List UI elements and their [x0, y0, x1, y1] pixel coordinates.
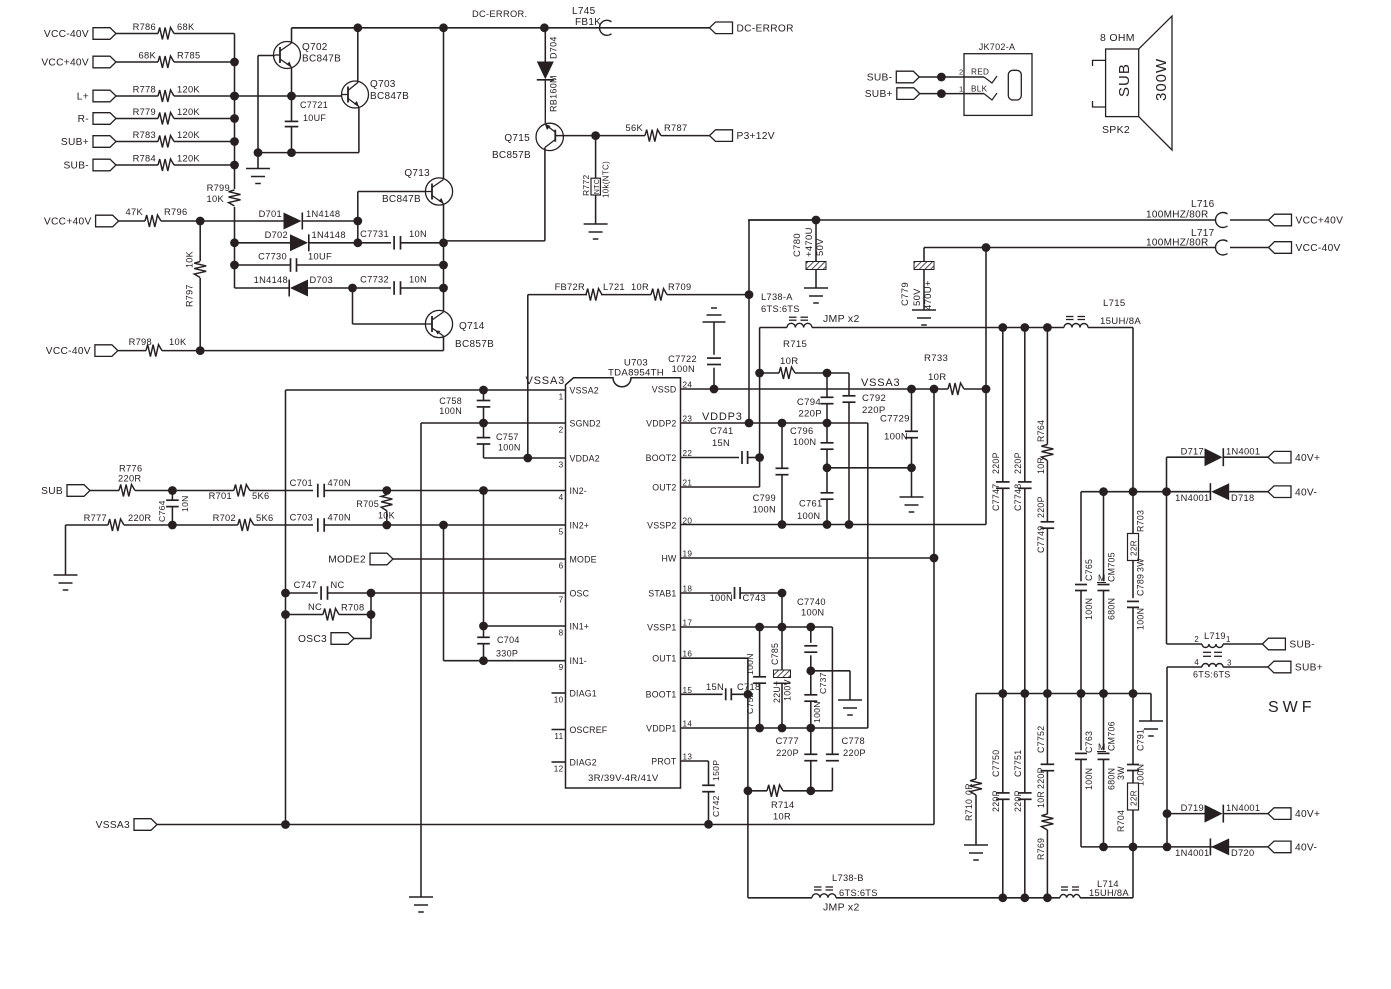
svg-text:15UH/8A: 15UH/8A: [1089, 888, 1129, 898]
ground C7729: [900, 468, 924, 512]
node IN1- tap: [479, 656, 488, 665]
svg-text:SPK2: SPK2: [1102, 124, 1130, 136]
svg-text:C701: C701: [290, 478, 313, 488]
svg-text:100N: 100N: [672, 364, 695, 374]
ferrite L717 100MHZ/80R: [1146, 228, 1228, 255]
svg-text:BC847B: BC847B: [370, 91, 409, 102]
svg-text:VSSA3: VSSA3: [96, 820, 130, 831]
svg-text:6TS:6TS: 6TS:6TS: [839, 888, 878, 898]
capacitor C779 470U 50V: [900, 248, 936, 326]
svg-text:C7732: C7732: [360, 275, 389, 285]
capacitor CM705 680N: [1097, 492, 1117, 694]
svg-text:R708: R708: [341, 603, 364, 613]
svg-text:Q703: Q703: [370, 79, 396, 90]
svg-text:VCC+40V: VCC+40V: [41, 58, 89, 69]
wire ground rail: [254, 148, 359, 157]
wire Q703 emitter: [358, 107, 360, 153]
capacitor C7722 100N: [668, 308, 725, 389]
svg-text:SUB: SUB: [1116, 63, 1133, 97]
wire L719 to SUB+: [1223, 666, 1268, 668]
svg-text:PROT: PROT: [651, 756, 677, 766]
svg-text:10R: 10R: [631, 282, 649, 292]
node R733 right: [982, 385, 991, 394]
op-amp U703 TDA8954TH body: [526, 358, 681, 789]
svg-text:RED: RED: [971, 68, 989, 77]
label VSSA3 right: [861, 377, 900, 389]
svg-text:470N: 470N: [328, 513, 351, 523]
svg-text:FB72R: FB72R: [555, 282, 585, 292]
svg-text:R733: R733: [924, 353, 948, 364]
capacitor C765 100N: [1075, 492, 1094, 694]
capacitor C791 100N: [1127, 694, 1146, 787]
wire C7730 long: [297, 264, 444, 266]
resistor R705 10K: [356, 495, 395, 525]
svg-text:10N: 10N: [409, 229, 427, 239]
svg-text:2: 2: [559, 426, 564, 435]
resistor R701 5K6: [172, 485, 313, 502]
svg-text:M: M: [1098, 742, 1106, 752]
svg-text:10K: 10K: [169, 337, 187, 347]
svg-text:15N: 15N: [712, 438, 730, 448]
wire D717 out: [1223, 456, 1268, 458]
resistor R704 22R 3W: [1116, 766, 1139, 847]
node bus D702: [230, 238, 239, 247]
wire HW pin19: [681, 557, 935, 559]
svg-text:4: 4: [1194, 658, 1199, 667]
svg-text:1N4001: 1N4001: [1175, 493, 1209, 503]
svg-text:SUB-: SUB-: [63, 161, 89, 172]
capacitor C7732 10N: [360, 275, 427, 295]
svg-text:6TS:6TS: 6TS:6TS: [761, 304, 800, 314]
svg-text:VDDP2: VDDP2: [646, 418, 676, 428]
node DC-ERROR wire junctions: [353, 23, 548, 32]
svg-text:SUB+: SUB+: [865, 89, 893, 100]
svg-text:C7740: C7740: [797, 597, 826, 607]
svg-text:L738-B: L738-B: [832, 873, 864, 883]
svg-text:OSCREF: OSCREF: [570, 725, 608, 735]
svg-text:HW: HW: [661, 553, 677, 563]
wire L714 up: [1080, 847, 1133, 898]
wire JMP row left: [760, 327, 787, 329]
wire L717 to connector: [1230, 247, 1269, 249]
svg-text:VSSP1: VSSP1: [647, 622, 676, 632]
svg-text:C7752: C7752: [1036, 726, 1046, 753]
capacitor C794 220P: [797, 373, 834, 423]
node C796 bottom: [823, 463, 832, 472]
svg-text:40V+: 40V+: [1295, 809, 1320, 820]
wire Q715 emitter to node: [555, 135, 596, 137]
svg-text:C789: C789: [1136, 574, 1146, 596]
label JMP x2 top: [823, 313, 860, 325]
node VSSP2 dots: [778, 520, 854, 529]
diode D703 1N4148: [254, 275, 333, 297]
diode D719 1N4001: [1163, 803, 1261, 823]
svg-text:R785: R785: [177, 51, 200, 61]
svg-text:D717: D717: [1181, 447, 1204, 457]
svg-text:D704: D704: [549, 36, 559, 59]
svg-text:1N4001: 1N4001: [1175, 848, 1209, 858]
svg-text:R783: R783: [133, 130, 156, 140]
wire output node A: [1081, 843, 1268, 852]
svg-text:10K: 10K: [185, 251, 195, 268]
wire D703 row: [235, 287, 290, 289]
svg-text:VSSP2: VSSP2: [647, 520, 676, 530]
svg-text:1N4001: 1N4001: [1226, 447, 1260, 457]
output P3+12V: [710, 130, 775, 142]
svg-text:10UF: 10UF: [308, 252, 332, 262]
node bus C7730: [230, 261, 239, 270]
svg-text:R796: R796: [164, 207, 187, 217]
svg-text:22R: 22R: [1130, 790, 1139, 806]
svg-text:R779: R779: [133, 107, 156, 117]
wire R715 to C792: [827, 373, 849, 396]
svg-text:100N: 100N: [439, 406, 462, 416]
svg-text:100V: 100V: [783, 679, 793, 701]
capacitor C747 NC: [294, 580, 345, 600]
connector JK702-A: [959, 42, 1032, 115]
wire JMP row right: [812, 323, 1064, 332]
wire node B to L719: [1167, 492, 1203, 644]
capacitor C7721 10UF: [285, 100, 328, 127]
wire input bus: [234, 34, 236, 289]
svg-text:10UF: 10UF: [303, 113, 326, 123]
svg-text:22R: 22R: [1130, 540, 1139, 556]
svg-text:120K: 120K: [177, 107, 200, 117]
svg-text:10: 10: [554, 696, 564, 705]
wire bottom jmp left: [748, 897, 812, 899]
svg-text:1N4148: 1N4148: [306, 209, 340, 219]
node D703/Q714 base: [348, 284, 357, 293]
svg-text:Q713: Q713: [404, 168, 430, 179]
wire VDDP1 pin14: [681, 724, 868, 733]
capacitor C780 470U 50V: [792, 220, 828, 303]
transistor Q703 BC847B: [342, 79, 410, 108]
svg-text:VCC-40V: VCC-40V: [1296, 243, 1341, 254]
svg-text:3R/39V-4R/41V: 3R/39V-4R/41V: [588, 773, 659, 784]
svg-text:BOOT1: BOOT1: [646, 690, 677, 700]
svg-text:RB160M: RB160M: [549, 75, 559, 112]
capacitor C718 15N: [706, 682, 760, 700]
node R715 left: [755, 369, 764, 378]
inductor L715 15UH/8A: [1064, 298, 1141, 328]
node base/C7731 node: [353, 238, 362, 247]
svg-text:C7731: C7731: [360, 229, 389, 239]
node C742 bottom: [704, 820, 713, 829]
capacitor C785 22U 100V: [770, 627, 793, 728]
resistor R777 220R: [84, 513, 173, 531]
wire R708 right: [339, 593, 375, 619]
svg-text:C741: C741: [710, 426, 733, 436]
input L+ with resistor R778: [77, 85, 235, 103]
wire OUT2 pin21: [681, 458, 760, 488]
svg-text:40V-: 40V-: [1295, 843, 1317, 854]
svg-text:C7729: C7729: [880, 414, 910, 425]
transistor Q714 BC857B: [425, 310, 494, 350]
wire R709 to node: [667, 294, 749, 296]
resistor R733 10R: [924, 353, 986, 395]
capacitor C7731 10N: [360, 229, 427, 250]
wire Q713 base riser: [358, 192, 426, 243]
svg-text:680N: 680N: [1107, 598, 1117, 620]
input VCC-40V with resistor R786: [44, 22, 235, 40]
wire SUB- to jack: [919, 73, 984, 82]
resistor R703 22R 3W: [1128, 492, 1146, 599]
svg-text:100N: 100N: [797, 511, 820, 521]
svg-text:22U+: 22U+: [772, 681, 782, 703]
svg-text:R704: R704: [1116, 810, 1126, 832]
wire VSSD pin24: [681, 385, 949, 394]
svg-text:OUT2: OUT2: [652, 482, 676, 492]
svg-text:C7721: C7721: [300, 100, 328, 110]
svg-text:SUB+: SUB+: [61, 137, 89, 148]
resistor FB72R L721: [555, 282, 625, 301]
svg-text:C765: C765: [1084, 559, 1094, 581]
svg-text:D703: D703: [310, 275, 333, 285]
svg-text:VDDP1: VDDP1: [646, 723, 676, 733]
svg-text:NC: NC: [308, 602, 322, 612]
node R715 right: [823, 369, 832, 378]
wire bus 693 row: [976, 689, 1151, 698]
svg-text:17: 17: [683, 619, 693, 628]
svg-text:C796: C796: [790, 426, 813, 436]
wire BOOT1 pin15: [681, 693, 723, 695]
node Q713 emitter: [439, 238, 448, 247]
ground below R772: [584, 224, 608, 239]
wire PROT pin13: [681, 761, 709, 785]
svg-text:VCC+40V: VCC+40V: [44, 217, 92, 228]
svg-text:21: 21: [683, 479, 693, 488]
svg-text:CM706: CM706: [1107, 721, 1117, 751]
svg-text:1N4148: 1N4148: [254, 275, 288, 285]
input SUB- with resistor R784: [63, 154, 234, 172]
wire VDDP2-VDDP1 vertical: [867, 423, 869, 728]
capacitor C7750 220P: [991, 694, 1010, 898]
svg-text:100N: 100N: [1136, 608, 1146, 630]
svg-text:VCC-40V: VCC-40V: [44, 29, 89, 40]
svg-text:BLK: BLK: [971, 85, 988, 94]
label DC-ERROR.: [472, 9, 527, 19]
svg-text:10N: 10N: [180, 495, 190, 512]
capacitor C752 100N: [745, 627, 766, 728]
svg-text:L719: L719: [1204, 631, 1226, 641]
svg-text:3: 3: [1227, 659, 1232, 668]
svg-text:220P: 220P: [798, 409, 822, 420]
svg-text:9: 9: [559, 663, 564, 672]
node R714 right: [806, 786, 815, 795]
svg-text:R777: R777: [84, 513, 107, 523]
node C7732 right: [439, 284, 448, 293]
node Q715 node: [591, 131, 600, 140]
svg-text:10R: 10R: [780, 356, 799, 367]
svg-text:R705: R705: [356, 499, 379, 509]
svg-text:11: 11: [554, 732, 563, 741]
wire C703 to IN2+: [324, 521, 565, 530]
wire STAB1 pin18: [681, 592, 732, 594]
diode D702 1N4148: [265, 230, 346, 251]
svg-text:SWF: SWF: [1268, 699, 1316, 716]
svg-text:5K6: 5K6: [256, 513, 273, 523]
svg-text:VDDP3: VDDP3: [702, 411, 743, 423]
svg-text:L738-A: L738-A: [761, 292, 793, 302]
wire SGND2 pin2: [421, 422, 566, 424]
svg-text:100N: 100N: [801, 608, 824, 618]
svg-text:22: 22: [683, 449, 693, 458]
svg-text:C7751: C7751: [1013, 750, 1023, 777]
node IN1+ tap: [479, 622, 488, 631]
svg-text:100N: 100N: [793, 437, 816, 447]
wire -40V rail: [924, 243, 1216, 252]
svg-text:R799: R799: [207, 183, 230, 193]
svg-text:16: 16: [683, 650, 693, 659]
svg-text:100N: 100N: [884, 432, 908, 443]
capacitor C704 330P: [477, 626, 520, 661]
node C764 bottom: [168, 521, 177, 530]
svg-text:D720: D720: [1231, 848, 1254, 858]
svg-text:IN2+: IN2+: [570, 520, 590, 530]
wire C7731 to Q713 emitter: [401, 242, 444, 244]
inductor L719 core: [1203, 652, 1222, 656]
svg-text:JMP x2: JMP x2: [823, 902, 860, 914]
svg-text:VCC-40V: VCC-40V: [46, 346, 91, 357]
diode D717 1N4001: [1167, 447, 1261, 492]
diode D718 1N4001: [1167, 483, 1255, 503]
svg-text:C779: C779: [900, 282, 911, 306]
capacitor C7730 10UF: [258, 252, 332, 272]
svg-text:24: 24: [683, 381, 693, 390]
wire output node B: [1081, 487, 1171, 496]
svg-text:C780: C780: [792, 233, 803, 257]
svg-text:VCC+40V: VCC+40V: [1296, 216, 1344, 227]
svg-text:MODE2: MODE2: [328, 555, 366, 566]
wire SUB+ down: [1167, 667, 1202, 847]
capacitor C741 15N: [681, 426, 760, 464]
resistor R714 10R: [767, 785, 811, 822]
svg-text:120K: 120K: [177, 85, 200, 95]
svg-text:1N4001: 1N4001: [1226, 803, 1260, 813]
input SUB+ jack: [865, 88, 920, 100]
output 40V- top: [1268, 486, 1317, 498]
resistor R797 10K: [185, 221, 207, 351]
capacitor C789 100N: [1127, 574, 1146, 694]
svg-text:100N: 100N: [1084, 598, 1094, 620]
svg-text:C704: C704: [497, 635, 520, 645]
svg-text:SGND2: SGND2: [570, 418, 601, 428]
svg-text:R769: R769: [1036, 838, 1046, 860]
resistor R709 10R: [631, 282, 691, 301]
wire D719 out: [1223, 813, 1268, 815]
wire Q703 collector: [357, 28, 359, 83]
svg-text:BC857B: BC857B: [455, 339, 494, 350]
wire VSSA3 row: [157, 820, 934, 829]
svg-text:C758: C758: [439, 396, 462, 406]
svg-text:10k(NTC): 10k(NTC): [602, 161, 611, 198]
svg-text:100N: 100N: [498, 443, 521, 453]
inductor L738-A 6TS:6TS: [761, 292, 812, 328]
svg-text:D702: D702: [265, 230, 288, 240]
capacitor C792 220P: [843, 393, 887, 525]
svg-text:Q702: Q702: [302, 42, 328, 53]
input OSC3: [298, 633, 354, 645]
wire D718 out: [1229, 491, 1268, 493]
wire D701 to Q713 base: [302, 220, 358, 222]
svg-text:18: 18: [683, 585, 693, 594]
svg-text:13: 13: [683, 753, 693, 762]
wire VSSA2 pin1: [286, 386, 566, 395]
capacitor C757 100N: [477, 423, 521, 453]
svg-text:2: 2: [1194, 635, 1199, 644]
svg-text:C7747: C7747: [991, 484, 1001, 511]
wire R708 row: [281, 610, 323, 619]
svg-text:8: 8: [559, 629, 564, 638]
svg-text:R787: R787: [664, 123, 687, 133]
svg-text:C791: C791: [1136, 729, 1146, 751]
svg-text:14: 14: [683, 720, 693, 729]
svg-text:IN1-: IN1-: [570, 656, 587, 666]
label SWF: [1268, 699, 1316, 716]
svg-text:C792: C792: [862, 393, 886, 404]
svg-text:220P: 220P: [1036, 496, 1046, 518]
resistor R715 10R: [760, 339, 827, 379]
node C764 top: [168, 486, 177, 495]
wire Q702 collector: [292, 28, 358, 43]
svg-text:R798: R798: [129, 337, 152, 347]
svg-text:C763: C763: [1084, 731, 1094, 753]
svg-text:10N: 10N: [409, 275, 427, 285]
svg-text:VSSD: VSSD: [652, 384, 677, 394]
wire D702 row: [235, 242, 291, 244]
svg-text:CM705: CM705: [1107, 552, 1117, 582]
svg-text:100N: 100N: [745, 653, 755, 675]
svg-text:19: 19: [683, 550, 693, 559]
wire C796 to C7729: [827, 463, 916, 472]
inductor L714 15UH/8A: [1060, 879, 1129, 898]
wire D702 to node: [309, 242, 391, 244]
inductor L719 winding 3-4: [1193, 658, 1232, 680]
svg-text:120K: 120K: [177, 154, 200, 164]
transistor Q713 BC847B: [382, 28, 453, 243]
node C7740 bottom: [806, 666, 815, 675]
wire R714 row: [744, 786, 768, 795]
ground R777: [54, 525, 78, 590]
svg-text:+470U: +470U: [804, 227, 815, 257]
svg-text:47K: 47K: [126, 207, 144, 217]
wire IN2+ to IN1-: [444, 525, 566, 661]
svg-text:220P: 220P: [1013, 452, 1023, 474]
capacitor C7740 100N: [797, 597, 826, 671]
svg-text:1: 1: [1226, 635, 1231, 644]
svg-text:IN1+: IN1+: [570, 621, 590, 631]
transistor Q715 BC857B: [492, 123, 563, 161]
svg-text:NC: NC: [331, 580, 345, 590]
diode D720 1N4001: [1175, 838, 1254, 858]
svg-text:Q714: Q714: [459, 321, 485, 332]
wire Q714 base: [353, 288, 426, 324]
svg-text:C7730: C7730: [258, 252, 287, 262]
wire L715 down: [1088, 328, 1133, 492]
input SUB- jack: [867, 71, 920, 83]
svg-text:23: 23: [683, 415, 693, 424]
wire D701 row: [200, 220, 283, 222]
wire VSSA3 bus left: [285, 390, 287, 825]
wire to IN2-: [387, 486, 566, 495]
svg-text:10R: 10R: [773, 812, 791, 822]
svg-text:15: 15: [683, 686, 693, 695]
input VCC+40V: [44, 215, 119, 227]
svg-text:150P: 150P: [711, 760, 721, 781]
svg-text:10K: 10K: [378, 511, 395, 521]
svg-text:JMP x2: JMP x2: [823, 313, 860, 325]
wire C758-SGND2: [479, 407, 488, 428]
